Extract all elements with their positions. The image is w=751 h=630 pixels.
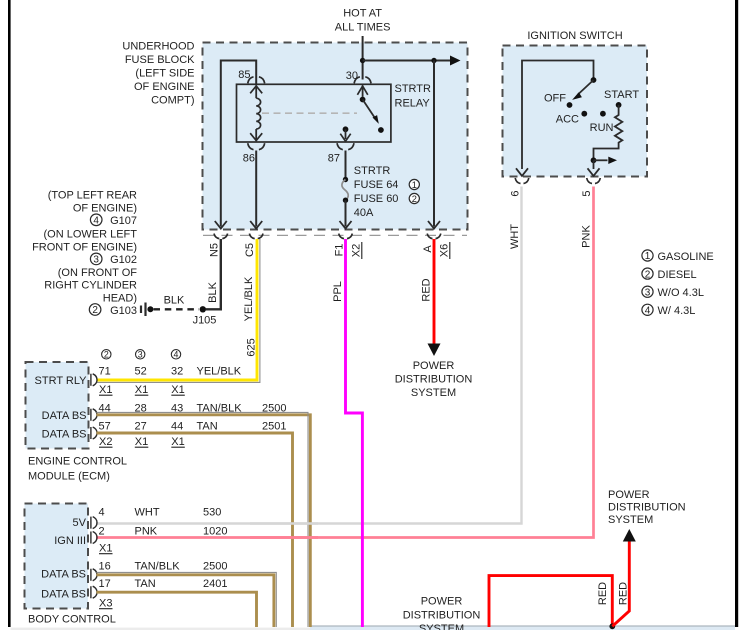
svg-text:X2: X2: [351, 244, 363, 257]
relay switch pin 30 lead: [357, 85, 367, 97]
svg-text:2: 2: [99, 526, 105, 538]
pin 30 connector arc: [346, 70, 371, 83]
svg-text:TAN: TAN: [135, 578, 156, 590]
connector pin 6 arc: [510, 178, 529, 197]
svg-text:G103: G103: [110, 305, 137, 317]
svg-text:DISTRIBUTION: DISTRIBUTION: [403, 610, 481, 622]
wire RED from A to power distribution: [421, 239, 441, 356]
BCM row2 pin numbers: [99, 526, 228, 538]
right frame border: [735, 0, 738, 627]
svg-text:N5: N5: [209, 243, 221, 257]
svg-text:(ON FRONT OF: (ON FRONT OF: [58, 267, 138, 279]
svg-text:RED: RED: [618, 582, 630, 605]
connector A arc + X6: [422, 234, 451, 259]
relay coil: [250, 85, 262, 141]
svg-text:F1: F1: [334, 244, 346, 257]
fuse qualifier circle 1: [409, 179, 419, 190]
connector pin 5 arc: [581, 178, 600, 197]
svg-text:C5: C5: [244, 243, 256, 257]
connector N5 arc: [209, 234, 228, 257]
ECM row1 pin numbers: [99, 366, 242, 378]
svg-text:POWER: POWER: [413, 360, 455, 372]
wire 85 feed (N5 branch): [215, 61, 256, 229]
BCM row1 pin numbers: [99, 507, 222, 519]
svg-text:YEL/BLK: YEL/BLK: [243, 276, 255, 321]
svg-text:RIGHT CYLINDER: RIGHT CYLINDER: [44, 280, 137, 292]
svg-text:6: 6: [510, 190, 522, 196]
wire PPL from F1 down: [332, 239, 362, 627]
svg-text:30: 30: [346, 70, 358, 82]
svg-text:OF ENGINE: OF ENGINE: [134, 81, 195, 93]
label power distribution system (right): [608, 489, 686, 526]
svg-text:BLK: BLK: [207, 281, 219, 302]
svg-text:(ON LOWER LEFT: (ON LOWER LEFT: [43, 228, 137, 240]
legend item 4 W/ 4.3L: [642, 304, 696, 317]
fuse STRTR FUSE 64 / FUSE 60 40A: [342, 165, 399, 219]
relay contact node: [378, 127, 384, 133]
wire A feed down inside fuse block: [428, 61, 440, 229]
svg-text:1: 1: [645, 251, 651, 262]
svg-text:2501: 2501: [262, 421, 286, 433]
svg-text:OF ENGINE): OF ENGINE): [73, 202, 137, 214]
ECM connector box: [26, 362, 89, 449]
svg-text:3: 3: [93, 255, 99, 266]
wire RED lower loop: [489, 576, 612, 627]
wire TAN/BLK 2500 from ECM: [96, 412, 310, 627]
svg-text:IGN III: IGN III: [54, 535, 86, 547]
BCM row3 pin numbers: [99, 561, 228, 573]
BCM pin bracket row3: [91, 569, 97, 581]
ignition OFF contact: [544, 93, 572, 108]
pin 85 connector arc: [238, 69, 264, 83]
relay box U1: [237, 84, 391, 142]
label PNK rotated: [581, 225, 593, 248]
svg-text:FRONT OF ENGINE): FRONT OF ENGINE): [32, 242, 137, 254]
svg-text:2: 2: [412, 194, 417, 204]
ground name G103: [89, 304, 137, 317]
ECM pin bracket row2: [91, 409, 97, 421]
relay switch blade: [360, 97, 379, 124]
label WHT rotated: [509, 224, 521, 249]
svg-text:BLK: BLK: [164, 295, 185, 307]
wire hot bus to right with arrow: [363, 56, 461, 66]
ignition START contact: [604, 89, 639, 108]
connector F1 arc + X2: [334, 234, 363, 259]
svg-text:COMPT): COMPT): [151, 95, 194, 107]
svg-text:5: 5: [581, 190, 593, 196]
svg-text:85: 85: [238, 69, 250, 81]
ignition switch box: [503, 46, 648, 177]
ground symbol G103: [141, 303, 153, 317]
svg-text:X1: X1: [171, 384, 184, 396]
underhood fuse block label: [122, 41, 195, 107]
svg-text:5V: 5V: [73, 517, 87, 529]
svg-text:TAN/BLK: TAN/BLK: [135, 561, 181, 573]
svg-text:HOT AT: HOT AT: [343, 8, 382, 20]
BCM connector box: [25, 504, 89, 609]
svg-text:4: 4: [645, 306, 651, 317]
svg-text:2500: 2500: [203, 561, 227, 573]
relay actuation dashed link: [262, 112, 357, 114]
svg-text:X2: X2: [99, 436, 112, 448]
wire TAN/BLK 2500 from BCM: [96, 572, 276, 627]
svg-text:G102: G102: [110, 254, 137, 266]
svg-text:27: 27: [135, 421, 147, 433]
svg-text:STRTR: STRTR: [354, 165, 391, 177]
connector strip dashed line: [203, 234, 467, 236]
BCM row X1: [99, 543, 113, 555]
svg-text:DISTRIBUTION: DISTRIBUTION: [395, 374, 473, 386]
relay label STRTR RELAY: [395, 83, 432, 110]
svg-text:HEAD): HEAD): [103, 292, 137, 304]
ECM row X1 X1 X1: [99, 384, 185, 396]
ECM row3 pin numbers: [99, 421, 287, 433]
label RED rotated left: [597, 582, 609, 605]
wire TAN 2401 from BCM: [96, 592, 256, 627]
svg-text:X3: X3: [99, 598, 112, 610]
legend item 1 GASOLINE: [642, 250, 714, 263]
svg-text:2401: 2401: [203, 578, 227, 590]
svg-text:TAN: TAN: [197, 421, 218, 433]
ECM pin bracket row1: [91, 374, 97, 386]
legend item 2 DIESEL: [642, 268, 697, 281]
ECM row X2 X1 X1: [99, 436, 185, 448]
BCM row X3: [99, 598, 113, 610]
svg-text:40A: 40A: [354, 207, 374, 219]
svg-text:DATA BS: DATA BS: [42, 429, 87, 441]
ground location text block: [32, 189, 137, 304]
wire YEL/BLK from C5 to ECM pin 71: [96, 239, 260, 382]
svg-text:DATA BS: DATA BS: [42, 410, 87, 422]
svg-text:FUSE 60: FUSE 60: [354, 193, 399, 205]
svg-text:SYSTEM: SYSTEM: [608, 514, 653, 526]
BCM pin bracket row4: [91, 586, 97, 598]
svg-text:WHT: WHT: [509, 224, 521, 249]
node red junction: [609, 623, 615, 629]
ground name G107: [90, 214, 137, 227]
svg-text:4: 4: [99, 507, 105, 519]
svg-text:1020: 1020: [203, 526, 227, 538]
ignition RUN contact: [590, 111, 614, 134]
ignition ACC contact: [556, 111, 587, 126]
svg-text:STRT RLY: STRT RLY: [35, 375, 88, 387]
relay pin 87 contact: [340, 126, 350, 141]
svg-text:POWER: POWER: [608, 489, 650, 501]
svg-text:A: A: [422, 245, 434, 253]
label RED rotated right: [618, 582, 630, 605]
svg-text:PNK: PNK: [581, 225, 593, 248]
wire PNK overlay at tan crossings: [250, 536, 318, 539]
node hot feed junction: [360, 58, 365, 63]
svg-text:W/O 4.3L: W/O 4.3L: [658, 287, 704, 299]
splice J105: [193, 306, 217, 326]
wire WHT from ignition pin 6 to BCM: [96, 187, 522, 524]
svg-text:17: 17: [99, 578, 111, 590]
resistor R1 ignition: [594, 105, 623, 158]
ECM qualifier circles 2 3 4: [102, 349, 111, 359]
pin 86 connector arc: [243, 143, 265, 164]
svg-text:X1: X1: [171, 436, 184, 448]
wire 87 lower segment to F1: [340, 200, 352, 228]
svg-text:DISTRIBUTION: DISTRIBUTION: [608, 502, 686, 514]
svg-text:PNK: PNK: [135, 526, 158, 538]
svg-text:52: 52: [135, 366, 147, 378]
svg-text:IGNITION SWITCH: IGNITION SWITCH: [527, 30, 622, 42]
svg-text:START: START: [604, 89, 639, 101]
connector C5 arc: [244, 234, 263, 257]
wire hot feed drop: [362, 36, 364, 80]
svg-text:X1: X1: [99, 384, 112, 396]
wire 87 upper segment: [345, 151, 347, 178]
svg-text:625: 625: [246, 338, 258, 356]
svg-text:WHT: WHT: [135, 507, 160, 519]
svg-text:ALL TIMES: ALL TIMES: [335, 22, 391, 34]
wire TAN 2501 from ECM: [96, 433, 292, 627]
ignition output junction: [591, 157, 597, 163]
svg-text:MODULE (ECM): MODULE (ECM): [28, 471, 110, 483]
svg-text:GASOLINE: GASOLINE: [658, 251, 714, 263]
label power distribution system (bottom): [403, 596, 481, 630]
svg-text:BODY CONTROL: BODY CONTROL: [28, 614, 116, 626]
node A-wire junction: [431, 58, 436, 63]
svg-text:STRTR: STRTR: [395, 83, 432, 95]
svg-text:X1: X1: [135, 436, 148, 448]
svg-text:POWER: POWER: [421, 596, 463, 608]
svg-text:DATA BS: DATA BS: [41, 569, 86, 581]
fuse qualifier circle 2: [409, 193, 419, 204]
svg-text:16: 16: [99, 561, 111, 573]
svg-text:87: 87: [328, 153, 340, 165]
left frame border: [8, 0, 11, 627]
svg-text:OFF: OFF: [544, 93, 566, 105]
svg-text:RELAY: RELAY: [395, 98, 431, 110]
svg-text:X6: X6: [439, 244, 451, 257]
wire RED riser to arrow: [612, 529, 636, 626]
svg-text:44: 44: [171, 421, 183, 433]
svg-text:G107: G107: [110, 215, 137, 227]
ECM row2 pin numbers: [99, 403, 287, 415]
svg-text:UNDERHOOD: UNDERHOOD: [122, 41, 194, 53]
svg-text:YEL/BLK: YEL/BLK: [197, 366, 242, 378]
svg-text:3: 3: [645, 287, 651, 298]
label power distribution system (middle): [395, 360, 473, 399]
wire BLK dashed ground lead: [154, 295, 200, 310]
svg-text:W/ 4.3L: W/ 4.3L: [658, 305, 696, 317]
ignition switch blade: [572, 80, 593, 100]
wire PNK from ignition pin 5 to BCM: [96, 187, 594, 538]
svg-text:J105: J105: [193, 315, 217, 327]
svg-text:(LEFT SIDE: (LEFT SIDE: [135, 68, 194, 80]
svg-text:(TOP LEFT REAR: (TOP LEFT REAR: [48, 189, 137, 201]
svg-text:FUSE BLOCK: FUSE BLOCK: [125, 54, 195, 66]
wire 86 to C5: [250, 151, 262, 229]
svg-text:86: 86: [243, 153, 255, 165]
svg-text:4: 4: [93, 216, 99, 227]
svg-text:X1: X1: [99, 543, 112, 555]
ground name G102: [90, 253, 137, 266]
underhood fuse block box: [203, 43, 468, 230]
ECM pin bracket row3: [91, 427, 97, 439]
svg-text:530: 530: [203, 507, 221, 519]
svg-text:ACC: ACC: [556, 114, 579, 126]
svg-text:2: 2: [645, 269, 651, 280]
legend item 3 W/O 4.3L: [642, 286, 704, 299]
svg-text:SYSTEM: SYSTEM: [419, 623, 464, 630]
BCM pin bracket row2: [91, 532, 97, 544]
svg-text:ENGINE CONTROL: ENGINE CONTROL: [28, 456, 127, 468]
svg-text:X1: X1: [135, 384, 148, 396]
svg-text:DIESEL: DIESEL: [658, 269, 697, 281]
svg-text:SYSTEM: SYSTEM: [411, 387, 456, 399]
svg-text:DATA BS: DATA BS: [41, 589, 86, 601]
pin 87 connector arc: [328, 143, 354, 164]
ignition internal feed wire: [516, 61, 594, 176]
svg-text:2: 2: [104, 349, 109, 359]
svg-text:RED: RED: [597, 582, 609, 605]
svg-text:4: 4: [174, 349, 179, 359]
svg-text:71: 71: [99, 366, 111, 378]
svg-text:2: 2: [92, 305, 98, 316]
wire WHT overlay at tan crossings: [250, 522, 318, 524]
HOT AT ALL TIMES label: [335, 8, 391, 34]
bottom edge strip: [11, 628, 735, 630]
BCM row4 pin numbers: [99, 578, 228, 590]
svg-text:1: 1: [412, 180, 417, 190]
svg-text:32: 32: [171, 366, 183, 378]
ignition branch arrow right: [594, 157, 618, 164]
svg-text:PPL: PPL: [332, 281, 344, 302]
svg-text:FUSE 64: FUSE 64: [354, 179, 399, 191]
svg-text:57: 57: [99, 421, 111, 433]
ignition switch blade pivot: [591, 77, 597, 83]
svg-text:3: 3: [138, 349, 143, 359]
wire BLK from J105 up to N5: [206, 239, 221, 309]
svg-text:RED: RED: [421, 278, 433, 301]
ignition output wire down: [588, 160, 600, 176]
BCM pin bracket row1: [91, 517, 97, 529]
svg-text:RUN: RUN: [590, 122, 614, 134]
